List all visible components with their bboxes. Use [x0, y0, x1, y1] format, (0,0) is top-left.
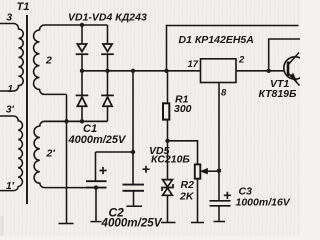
junction C1 bottom / winding 2' lead	[94, 185, 98, 189]
svg-text:R2: R2	[181, 179, 195, 191]
svg-text:VD1-VD4 КД243: VD1-VD4 КД243	[68, 12, 147, 24]
terminal tick C2 stub	[127, 205, 143, 207]
wire AC2 bus under bridge	[45, 120, 108, 122]
transformer T1 primary winding upper section (terminals 3-1)	[0, 24, 23, 92]
svg-text:2: 2	[45, 55, 52, 67]
svg-text:8: 8	[221, 88, 227, 99]
svg-text:3': 3'	[6, 105, 15, 116]
wire C1 bottom lead to stub	[95, 188, 97, 222]
wire D1 pin 2 output to VT1 base	[236, 70, 284, 72]
capacitor C3	[210, 201, 231, 206]
terminal tick common stub	[59, 223, 74, 225]
wire raw rail down to C2	[132, 71, 134, 185]
junction raw rail / VD1-VD3	[80, 69, 84, 73]
svg-text:2': 2'	[46, 148, 56, 160]
C2 polarity plus	[143, 166, 150, 173]
terminal tick R2 stub	[191, 222, 204, 224]
wire VD5 bottom lead to stub	[167, 195, 169, 223]
junction base wire / collector branch	[267, 69, 271, 73]
wire down to C1 top plate	[95, 152, 97, 181]
diode VD4	[101, 95, 114, 106]
transformer T1 secondary winding 2 with top lead to bridge	[34, 25, 108, 94]
wire R2 bottom lead to stub	[197, 179, 199, 223]
regulator D1 box	[201, 59, 237, 83]
junction pin-8 column / R2 wiper	[217, 169, 221, 173]
resistor R1	[163, 103, 169, 119]
svg-text:2: 2	[238, 55, 245, 66]
wire R2 wiper to pin-8 column	[204, 170, 220, 172]
wire R1 to node A	[167, 119, 169, 180]
node A junction R1/VD5/R2	[165, 139, 169, 143]
svg-text:КС210Б: КС210Б	[151, 154, 190, 166]
wire C1 top to C2 column	[96, 151, 134, 153]
svg-text:300: 300	[174, 103, 192, 115]
wire VD4 anode to AC2 bus	[107, 106, 109, 121]
C3 polarity plus	[224, 192, 231, 199]
svg-text:1000m/16V: 1000m/16V	[236, 197, 291, 209]
capacitor C2	[123, 185, 145, 191]
C1 polarity plus	[100, 167, 107, 174]
svg-text:4000m/25V: 4000m/25V	[101, 216, 163, 229]
wire D1 pin 8 down to wiper node and C3	[218, 83, 220, 201]
wire raw rail to VD4 cathode	[107, 71, 109, 96]
diode VD1	[76, 44, 89, 54]
junction raw rail / riser and R1	[164, 69, 168, 73]
wire raw rail down to R1	[167, 71, 169, 104]
svg-text:1': 1'	[6, 181, 15, 192]
capacitor C1	[86, 181, 107, 187]
junction raw rail / VD2-VD4	[105, 69, 109, 73]
junction AC2 bus / winding-2 down-run	[64, 119, 68, 123]
wire base node up and right to collector (off edge)	[269, 39, 300, 71]
svg-text:1: 1	[8, 84, 14, 95]
transformer T1 core	[26, 15, 28, 204]
svg-text:D1 КР142ЕН5А: D1 КР142ЕН5А	[179, 34, 254, 46]
wire VD2 cathode to raw rail	[107, 54, 109, 71]
transistor VT1	[284, 53, 306, 86]
wire C2 bottom lead to stub	[133, 191, 135, 206]
wire C3 bottom lead to stub	[218, 206, 220, 222]
wire raw rail to VD3 cathode	[81, 71, 83, 96]
R2 wiper arrowhead	[201, 169, 208, 174]
svg-text:Т1: Т1	[17, 1, 30, 13]
svg-text:КТ819Б: КТ819Б	[259, 88, 298, 100]
wire AC1 rail to VD2 anode	[107, 25, 109, 44]
junction raw rail / C2 column	[131, 69, 135, 73]
wire riser raw rail to top-right rail off right edge	[167, 26, 299, 71]
potentiometer R2	[195, 164, 201, 178]
wire VD1 cathode to raw rail	[81, 54, 83, 71]
transformer T1 secondary winding 2' with top lead to lower bus	[34, 121, 107, 187]
wire node A to R2 top	[168, 141, 198, 165]
svg-text:17: 17	[188, 59, 199, 70]
diode VD2	[101, 44, 114, 54]
svg-text:3: 3	[7, 13, 13, 24]
transformer T1 primary winding lower section (terminals 3'-1')	[0, 116, 22, 191]
svg-text:2K: 2K	[179, 191, 195, 203]
zener VD5 (bidirectional)	[162, 180, 173, 196]
wire AC1 rail to VD1 anode	[81, 25, 83, 44]
junction C2 column / C1 link	[131, 150, 135, 154]
wire VD3 anode to AC2 bus	[81, 106, 83, 121]
wire raw DC rail to D1 pin 17	[82, 70, 201, 72]
svg-text:4000m/25V: 4000m/25V	[68, 134, 128, 146]
terminal tick VD5 stub	[161, 222, 176, 224]
junction AC1 rail / VD1	[80, 23, 84, 27]
junction AC2 bus / VD3	[80, 119, 84, 123]
terminal tick C3 stub	[214, 221, 226, 223]
diode VD3	[76, 95, 89, 106]
terminal tick C1 stub	[91, 221, 102, 223]
wire winding-2 bottom lead down to common stub	[66, 94, 68, 223]
